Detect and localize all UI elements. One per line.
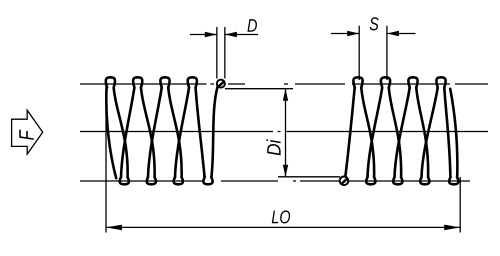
label LO xyxy=(272,211,279,224)
right spring coil 4 top loop xyxy=(436,77,445,87)
left spring closed end leg xyxy=(106,88,116,179)
right spring coil 2 top loop xyxy=(381,77,390,87)
dimension D arrow lines xyxy=(190,34,258,36)
dimension S extension lines xyxy=(359,26,387,80)
right spring coil 4 front leg xyxy=(444,88,450,178)
right spring coil 3 front leg xyxy=(416,88,428,178)
right spring closed end leg xyxy=(450,89,457,177)
dimension S arrow lines xyxy=(331,33,416,35)
right spring coil 1 bottom loop xyxy=(366,177,375,184)
left spring coil 2 front leg xyxy=(141,88,155,178)
force block arrow xyxy=(12,110,43,154)
LO extension lines xyxy=(106,84,460,233)
right spring coil 2 bottom loop xyxy=(393,177,402,184)
wire cross-section circle (right spring end, bottom left) xyxy=(340,177,349,186)
left spring coil 2 back leg xyxy=(148,88,162,178)
label Di xyxy=(267,144,280,155)
left spring coil 3 back leg xyxy=(175,88,189,178)
right spring coil 2 back leg xyxy=(395,88,410,178)
left spring coil 1 front leg xyxy=(114,88,128,178)
wire cross-section circle (left spring end, top right) xyxy=(217,80,225,88)
right spring coil 4 bottom loop xyxy=(449,177,458,184)
dimension D extension lines xyxy=(217,27,225,79)
right spring coil 2 front leg xyxy=(389,88,401,178)
left spring coil 3 bottom loop xyxy=(174,177,183,184)
label F xyxy=(19,130,33,140)
left spring coil 4 front leg xyxy=(196,88,205,178)
right spring wire-end leg xyxy=(345,88,354,177)
label D xyxy=(247,19,257,32)
left spring coil 1 top loop xyxy=(106,77,115,87)
left spring coil 3 top loop xyxy=(160,77,169,87)
hatch in cross-section xyxy=(341,178,347,184)
centerline through upper coil loops xyxy=(80,83,488,85)
spring axis centerline xyxy=(80,131,488,133)
left spring coil 2 top loop xyxy=(133,77,142,87)
right spring coil 1 front leg xyxy=(361,88,374,178)
left spring coil 1 bottom loop xyxy=(120,177,129,184)
right spring coil 3 back leg xyxy=(422,88,438,178)
left spring coil 1 back leg xyxy=(121,88,134,178)
left spring coil 4 top loop xyxy=(188,77,197,87)
right spring coil 1 top loop xyxy=(353,77,362,87)
right spring coil 3 bottom loop xyxy=(420,177,429,184)
Di inner tangent reference lines xyxy=(225,89,340,177)
centerline through lower coil loops xyxy=(80,180,470,182)
right spring coil 3 top loop xyxy=(408,77,417,87)
left spring coil 4 bottom loop xyxy=(203,177,212,184)
label S xyxy=(370,17,379,30)
hatch in cross-section xyxy=(218,81,224,87)
left spring coil 2 bottom loop xyxy=(147,177,156,184)
left spring wire-end leg xyxy=(211,87,217,177)
right spring coil 1 back leg xyxy=(368,88,383,178)
LO dimension line with arrows xyxy=(106,226,460,228)
left spring coil 3 front leg xyxy=(168,88,181,178)
Di dimension line with arrows xyxy=(285,89,287,177)
